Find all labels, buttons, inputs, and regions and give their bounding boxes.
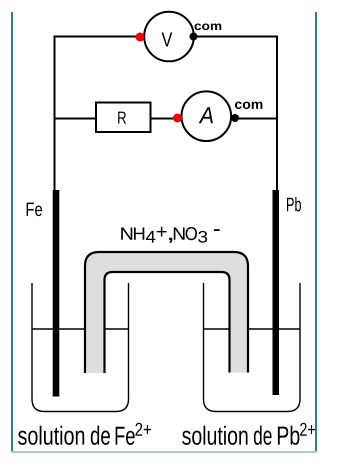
label solution de Fe2+ <box>18 423 151 445</box>
label R <box>118 112 126 124</box>
wire top-left: V red terminal to left corner <box>55 36 141 38</box>
wire right vertical down to Pb electrode <box>276 36 278 191</box>
terminal black A com <box>231 114 239 122</box>
voltmeter V <box>144 12 194 62</box>
label A <box>199 107 213 123</box>
label V <box>162 32 173 46</box>
salt bridge <box>85 252 248 373</box>
water line left <box>32 328 129 330</box>
terminal red V+ <box>136 33 145 42</box>
water line right <box>204 328 301 330</box>
terminal black V com <box>190 33 198 41</box>
label Pb <box>287 197 301 211</box>
terminal red A+ <box>173 114 182 123</box>
label NH4+,NO3- <box>121 227 220 243</box>
resistor R <box>96 103 151 133</box>
label solution de Pb2+ <box>182 423 315 445</box>
electrode Pb <box>273 190 280 395</box>
label com (A) <box>235 102 262 109</box>
ammeter A <box>182 91 232 141</box>
label Fe <box>27 203 42 217</box>
wire R to ammeter A <box>150 118 178 120</box>
electrode Fe <box>53 190 60 397</box>
label com (V) <box>194 23 221 30</box>
wire A com to right vertical <box>235 118 278 120</box>
wire left vertical down to Fe electrode <box>54 36 56 191</box>
beaker left <box>32 283 129 412</box>
wire branch to resistor R <box>54 118 97 120</box>
wire top-right: V com to right corner <box>195 36 277 38</box>
beaker right <box>204 283 301 412</box>
